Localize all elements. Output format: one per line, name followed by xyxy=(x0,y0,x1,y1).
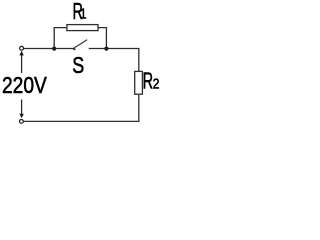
svg-text:220V: 220V xyxy=(2,73,48,98)
svg-text:S: S xyxy=(72,53,84,79)
svg-text:R: R xyxy=(143,69,153,94)
svg-text:2: 2 xyxy=(153,75,160,92)
svg-text:1: 1 xyxy=(80,5,87,22)
